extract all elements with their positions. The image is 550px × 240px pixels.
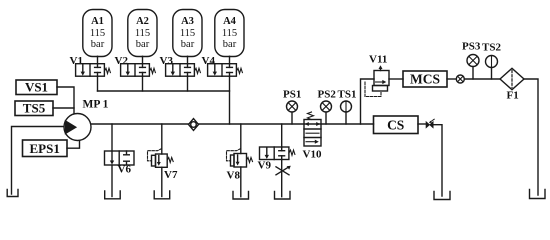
svg-text:TS2: TS2 [482, 42, 501, 54]
accumulator A4 [215, 10, 244, 57]
svg-text:V3: V3 [160, 55, 174, 67]
valve V7 (pilot pressure valve) [148, 124, 178, 197]
svg-text:PS2: PS2 [318, 89, 337, 101]
svg-text:MCS: MCS [410, 72, 440, 87]
gauge PS3 [462, 41, 481, 80]
svg-text:bar: bar [91, 39, 105, 50]
valve V9 [258, 124, 295, 172]
svg-text:A4: A4 [223, 16, 237, 27]
svg-text:PS1: PS1 [283, 89, 301, 101]
filter F1 [500, 68, 524, 101]
wire suction line from tank to pump [12, 127, 65, 195]
coupling after MCS [447, 75, 500, 83]
wire riser to V11 [361, 79, 375, 124]
valve V2 [115, 55, 156, 91]
box EPS1 [23, 140, 68, 157]
svg-text:V6: V6 [118, 164, 132, 176]
gauge PS1 [283, 89, 301, 125]
tank T0 (suction reservoir) [7, 190, 18, 197]
gauge PS2 [318, 89, 337, 125]
svg-text:A1: A1 [91, 16, 104, 27]
tank right (below F1 line) [530, 190, 546, 199]
svg-text:115: 115 [90, 28, 105, 39]
svg-text:bar: bar [136, 39, 150, 50]
gauge TS1 [338, 89, 357, 125]
tank below V7 [154, 191, 170, 199]
box VS1 [16, 80, 57, 95]
svg-text:VS1: VS1 [25, 80, 48, 95]
svg-text:V2: V2 [115, 55, 129, 67]
wire accumulator bus line [98, 91, 230, 124]
svg-text:V8: V8 [227, 170, 241, 182]
svg-text:115: 115 [135, 28, 150, 39]
svg-text:MP 1: MP 1 [83, 99, 109, 111]
svg-text:F1: F1 [507, 90, 519, 102]
svg-text:bar: bar [223, 39, 237, 50]
gauge TS2 [482, 42, 501, 80]
svg-text:CS: CS [387, 118, 404, 133]
wire main pressure line [90, 123, 374, 125]
valve V10 [303, 112, 322, 161]
valve V11 (pilot pressure valve to MCS) [365, 54, 403, 97]
accumulator A2 [128, 10, 157, 57]
pump MP 1 [64, 99, 109, 141]
tank below V6 [105, 191, 121, 199]
box MCS [403, 71, 447, 87]
svg-text:V11: V11 [369, 54, 387, 66]
box TS5 [15, 101, 53, 116]
valve V8 (pilot pressure valve) [227, 124, 253, 197]
svg-text:115: 115 [222, 28, 237, 39]
check valve [189, 119, 199, 131]
valve V4 [202, 55, 243, 91]
svg-text:bar: bar [181, 39, 195, 50]
valve V1 [70, 55, 111, 91]
valve V3 [160, 55, 201, 91]
svg-text:A3: A3 [181, 16, 194, 27]
svg-text:V9: V9 [258, 160, 272, 172]
svg-text:V4: V4 [202, 55, 216, 67]
wire F1 to tank [524, 79, 538, 195]
svg-text:TS1: TS1 [338, 89, 357, 101]
svg-text:EPS1: EPS1 [30, 141, 60, 156]
wire EPS1 to pump [67, 140, 80, 148]
box CS [374, 116, 419, 134]
svg-text:A2: A2 [136, 16, 149, 27]
accumulator A1 [83, 10, 112, 57]
svg-text:V10: V10 [303, 149, 322, 161]
shutoff valve after CS [418, 119, 442, 196]
svg-text:PS3: PS3 [462, 41, 481, 53]
svg-text:V7: V7 [164, 169, 178, 181]
accumulator A3 [173, 10, 202, 57]
tank below V9 throttle [275, 192, 291, 200]
svg-text:TS5: TS5 [23, 101, 46, 116]
wire TS5 to pump [53, 107, 74, 109]
svg-text:115: 115 [180, 28, 195, 39]
throttle below V9 [276, 160, 291, 197]
tank below V8 [233, 192, 249, 200]
tank below CS line [434, 192, 450, 200]
valve V6 [105, 124, 135, 197]
wire VS1 to pump [57, 87, 74, 115]
